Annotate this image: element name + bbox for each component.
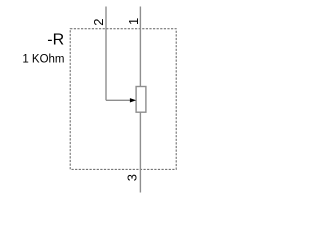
svg-text:1 KOhm: 1 KOhm: [22, 54, 64, 66]
dashed enclosure border: [70, 29, 176, 170]
svg-text:-R: -R: [47, 32, 64, 49]
svg-text:1: 1: [126, 18, 141, 25]
svg-text:3: 3: [125, 174, 140, 181]
svg-text:2: 2: [91, 18, 106, 25]
wire wiper horizontal: [106, 99, 130, 101]
wire pin 3 vertical: [139, 112, 141, 192]
potentiometer connection schematic: [0, 0, 200, 200]
wire pin 1 vertical: [139, 7, 141, 87]
wire pin 2 vertical: [105, 7, 107, 101]
wiper arrowhead: [130, 98, 136, 102]
resistor body R: [136, 87, 146, 113]
